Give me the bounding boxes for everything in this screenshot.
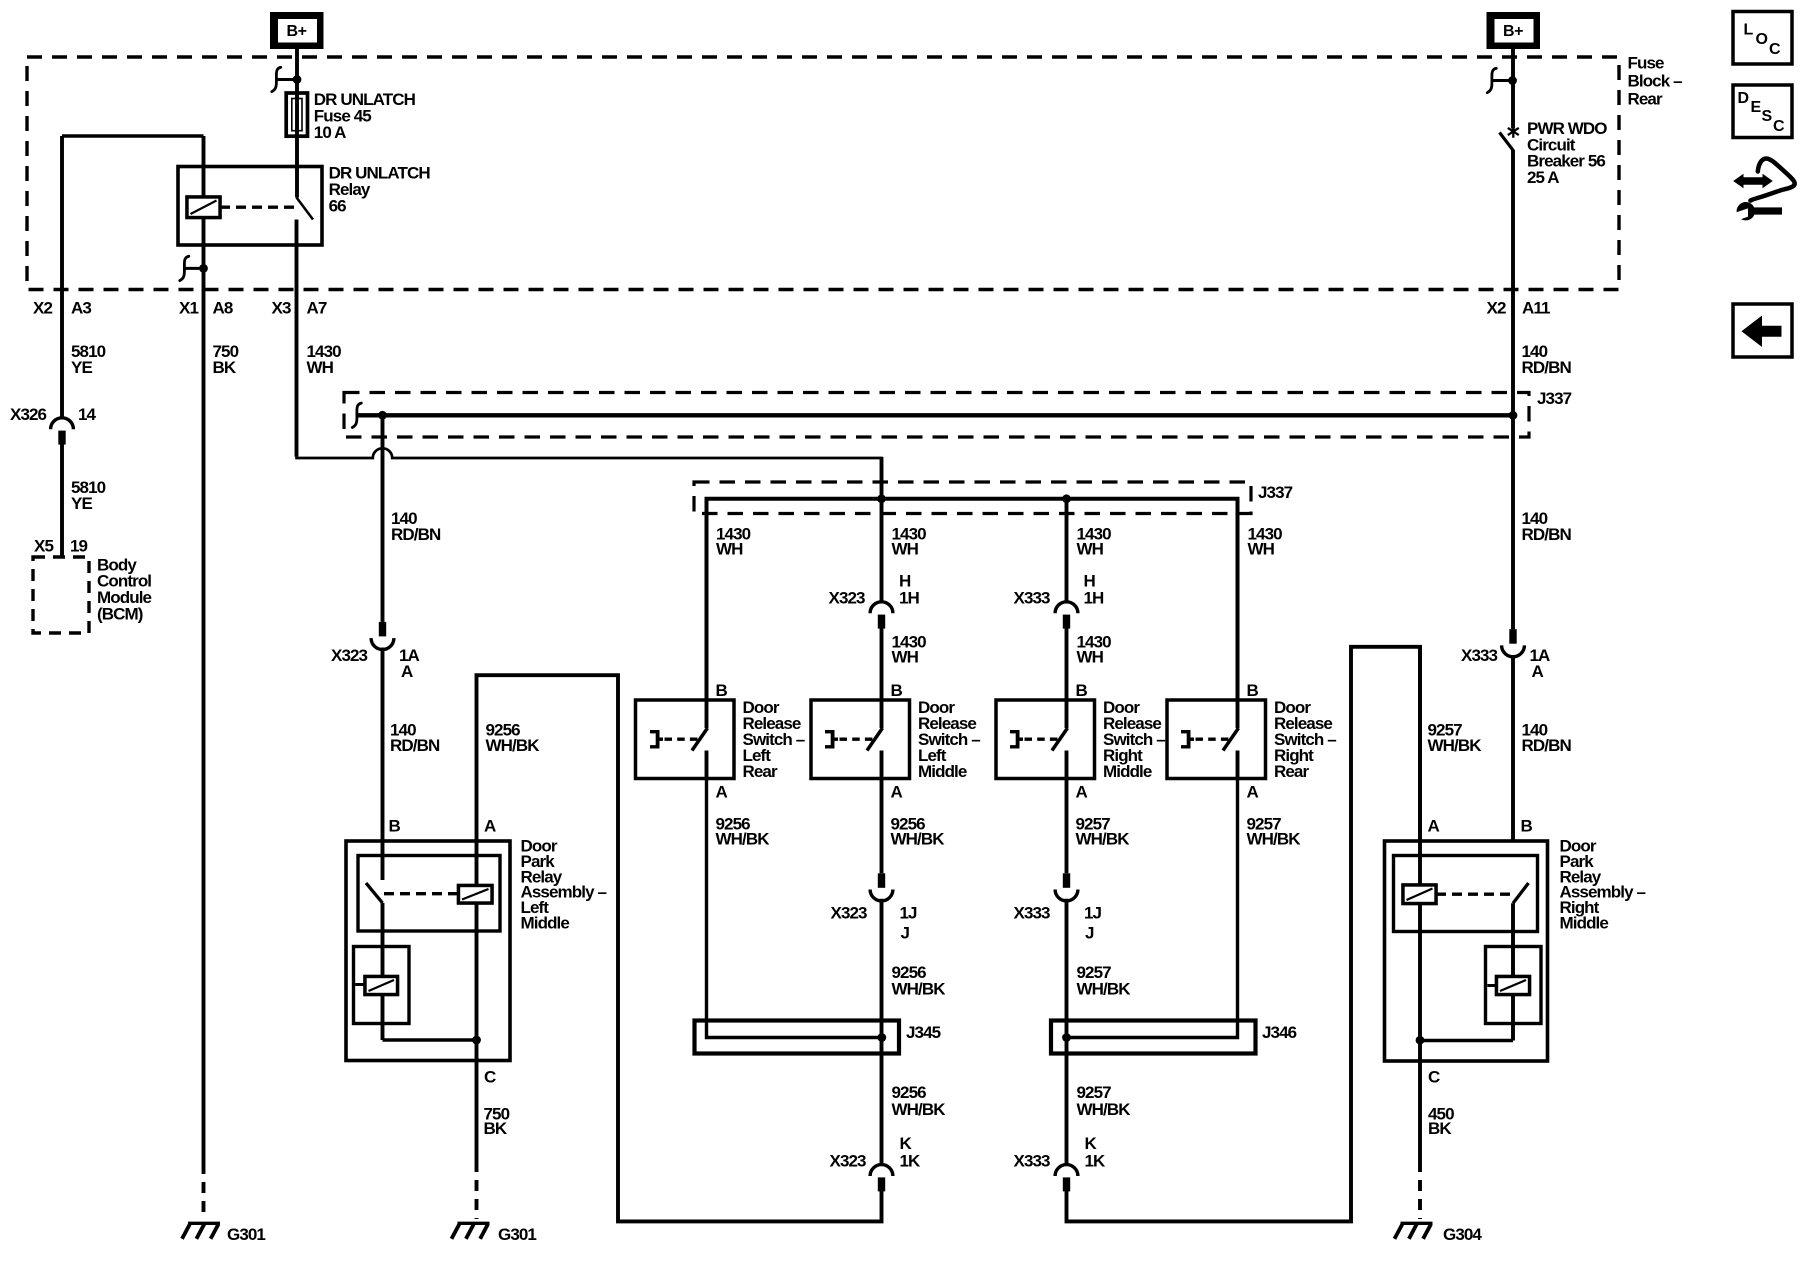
- svg-text:J337: J337: [1258, 483, 1293, 502]
- svg-text:Middle: Middle: [521, 914, 570, 933]
- svg-text:X2: X2: [33, 299, 52, 318]
- svg-text:A3: A3: [71, 299, 91, 318]
- svg-text:C: C: [1773, 118, 1785, 135]
- svg-text:J: J: [1085, 924, 1094, 943]
- svg-text:WH: WH: [1248, 540, 1275, 559]
- svg-text:B: B: [1076, 681, 1088, 700]
- svg-text:J345: J345: [906, 1023, 941, 1042]
- svg-text:X5: X5: [34, 537, 53, 556]
- svg-text:J: J: [901, 924, 910, 943]
- svg-text:J346: J346: [1262, 1023, 1297, 1042]
- svg-text:X1: X1: [179, 299, 198, 318]
- svg-text:Middle: Middle: [1560, 914, 1609, 933]
- svg-text:WH/BK: WH/BK: [1247, 829, 1302, 848]
- svg-text:O: O: [1756, 31, 1768, 48]
- svg-text:1H: 1H: [1084, 589, 1105, 608]
- svg-text:J337: J337: [1537, 389, 1572, 408]
- svg-text:K: K: [1085, 1134, 1098, 1153]
- svg-text:RD/BN: RD/BN: [1522, 736, 1572, 755]
- svg-text:YE: YE: [71, 494, 92, 513]
- svg-text:X333: X333: [1014, 904, 1051, 923]
- svg-text:X2: X2: [1487, 299, 1506, 318]
- svg-text:1K: 1K: [1085, 1152, 1107, 1171]
- svg-text:A8: A8: [213, 299, 233, 318]
- svg-text:Rear: Rear: [1628, 90, 1663, 109]
- svg-text:WH: WH: [1077, 648, 1104, 667]
- svg-text:B: B: [1247, 681, 1259, 700]
- svg-text:A: A: [891, 783, 903, 802]
- svg-text:WH: WH: [307, 358, 334, 377]
- svg-text:A: A: [1428, 817, 1440, 836]
- svg-text:D: D: [1738, 90, 1750, 107]
- svg-text:L: L: [1744, 22, 1754, 39]
- svg-text:Block –: Block –: [1628, 72, 1683, 91]
- svg-text:E: E: [1751, 99, 1762, 116]
- svg-text:X333: X333: [1014, 589, 1051, 608]
- svg-text:A: A: [1532, 662, 1544, 681]
- svg-text:14: 14: [78, 405, 97, 424]
- svg-text:A: A: [1076, 783, 1088, 802]
- svg-text:WH: WH: [716, 540, 743, 559]
- svg-text:(BCM): (BCM): [97, 604, 143, 623]
- svg-text:WH/BK: WH/BK: [1428, 736, 1483, 755]
- svg-text:X326: X326: [10, 405, 47, 424]
- svg-text:WH/BK: WH/BK: [891, 829, 946, 848]
- svg-text:1H: 1H: [899, 589, 920, 608]
- svg-text:WH/BK: WH/BK: [1077, 980, 1132, 999]
- svg-text:WH: WH: [892, 648, 919, 667]
- svg-text:X333: X333: [1014, 1152, 1051, 1171]
- svg-text:C: C: [1428, 1068, 1440, 1087]
- svg-text:10 A: 10 A: [314, 123, 346, 142]
- svg-text:1J: 1J: [900, 904, 918, 923]
- svg-text:X323: X323: [331, 646, 368, 665]
- svg-text:X323: X323: [830, 1152, 867, 1171]
- svg-text:WH/BK: WH/BK: [1077, 1100, 1132, 1119]
- svg-text:WH/BK: WH/BK: [716, 829, 771, 848]
- svg-text:K: K: [900, 1134, 913, 1153]
- svg-text:A7: A7: [307, 299, 327, 318]
- svg-text:X323: X323: [831, 904, 868, 923]
- svg-text:WH/BK: WH/BK: [892, 980, 947, 999]
- svg-text:BK: BK: [1428, 1119, 1452, 1138]
- svg-text:Rear: Rear: [1274, 762, 1309, 781]
- svg-text:WH/BK: WH/BK: [486, 736, 541, 755]
- svg-text:X323: X323: [829, 589, 866, 608]
- svg-text:A: A: [716, 783, 728, 802]
- svg-text:66: 66: [329, 196, 347, 215]
- svg-text:G304: G304: [1443, 1225, 1482, 1244]
- svg-text:RD/BN: RD/BN: [391, 525, 441, 544]
- svg-text:19: 19: [70, 537, 88, 556]
- svg-text:RD/BN: RD/BN: [390, 736, 440, 755]
- svg-text:1K: 1K: [900, 1152, 922, 1171]
- svg-text:BK: BK: [213, 358, 237, 377]
- svg-text:25 A: 25 A: [1527, 168, 1559, 187]
- svg-text:B: B: [716, 681, 728, 700]
- svg-text:1J: 1J: [1084, 904, 1102, 923]
- svg-text:B: B: [389, 817, 401, 836]
- svg-text:A: A: [1247, 783, 1259, 802]
- svg-text:G301: G301: [498, 1225, 536, 1244]
- svg-text:RD/BN: RD/BN: [1522, 525, 1572, 544]
- svg-text:WH/BK: WH/BK: [892, 1100, 947, 1119]
- svg-text:BK: BK: [484, 1119, 508, 1138]
- svg-text:X333: X333: [1461, 646, 1498, 665]
- svg-text:RD/BN: RD/BN: [1522, 358, 1572, 377]
- svg-text:WH: WH: [1077, 540, 1104, 559]
- svg-text:B+: B+: [1503, 23, 1523, 40]
- svg-text:WH/BK: WH/BK: [1076, 829, 1131, 848]
- svg-text:X3: X3: [272, 299, 291, 318]
- svg-text:Rear: Rear: [743, 762, 778, 781]
- svg-text:B+: B+: [287, 23, 307, 40]
- svg-text:Middle: Middle: [918, 762, 967, 781]
- svg-text:C: C: [484, 1068, 496, 1087]
- svg-text:S: S: [1762, 108, 1773, 125]
- svg-text:C: C: [1769, 41, 1781, 58]
- svg-text:WH: WH: [892, 540, 919, 559]
- svg-text:Fuse: Fuse: [1628, 54, 1665, 73]
- svg-text:A: A: [484, 817, 496, 836]
- svg-text:B: B: [891, 681, 903, 700]
- svg-text:Middle: Middle: [1103, 762, 1152, 781]
- svg-text:B: B: [1521, 817, 1533, 836]
- svg-text:A11: A11: [1522, 299, 1550, 318]
- svg-text:G301: G301: [227, 1225, 265, 1244]
- svg-text:YE: YE: [71, 358, 92, 377]
- svg-text:A: A: [401, 662, 413, 681]
